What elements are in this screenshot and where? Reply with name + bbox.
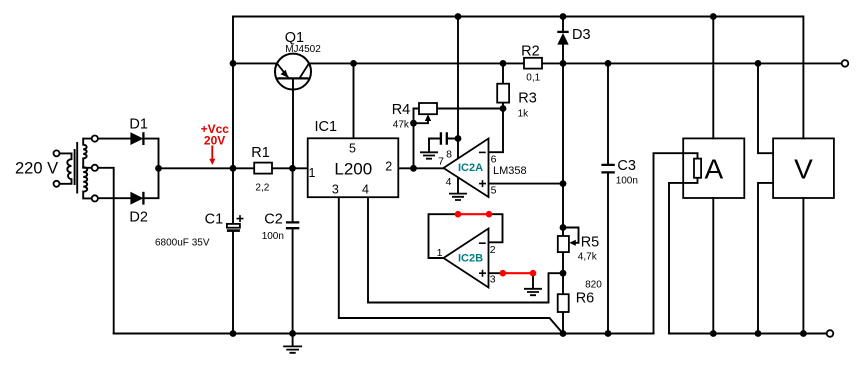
svg-text:5: 5 xyxy=(349,141,356,155)
svg-text:R3: R3 xyxy=(518,91,537,107)
svg-text:1: 1 xyxy=(437,247,443,259)
svg-text:8: 8 xyxy=(446,148,452,160)
svg-text:IC1: IC1 xyxy=(315,119,338,135)
svg-text:L200: L200 xyxy=(334,160,372,179)
svg-text:20V: 20V xyxy=(204,134,225,148)
svg-text:C3: C3 xyxy=(617,158,636,174)
svg-text:R6: R6 xyxy=(576,290,595,306)
svg-text:R1: R1 xyxy=(251,145,270,161)
svg-text:100n: 100n xyxy=(262,231,284,242)
svg-text:C2: C2 xyxy=(264,211,283,227)
svg-text:220 V: 220 V xyxy=(15,159,58,177)
svg-text:MJ4502: MJ4502 xyxy=(285,44,321,55)
svg-text:820: 820 xyxy=(585,280,602,291)
svg-text:R2: R2 xyxy=(521,44,540,60)
svg-text:5: 5 xyxy=(491,185,497,197)
svg-text:2: 2 xyxy=(490,244,496,256)
svg-text:6800uF 35V: 6800uF 35V xyxy=(155,238,210,249)
svg-text:47k: 47k xyxy=(393,120,410,131)
svg-text:2: 2 xyxy=(385,160,392,174)
svg-text:4: 4 xyxy=(446,176,452,188)
svg-text:1: 1 xyxy=(309,166,316,180)
svg-text:4: 4 xyxy=(362,182,369,196)
svg-text:C1: C1 xyxy=(205,211,224,227)
svg-text:D2: D2 xyxy=(129,210,148,226)
svg-text:1k: 1k xyxy=(518,109,530,120)
svg-text:0,1: 0,1 xyxy=(526,73,540,84)
svg-text:R4: R4 xyxy=(392,102,411,118)
svg-text:IC2B: IC2B xyxy=(458,253,483,265)
svg-text:7: 7 xyxy=(438,156,444,168)
svg-text:R5: R5 xyxy=(581,235,600,251)
svg-text:A: A xyxy=(705,154,724,185)
svg-text:V: V xyxy=(794,154,813,185)
svg-text:3: 3 xyxy=(490,274,496,286)
svg-text:D3: D3 xyxy=(572,27,591,43)
svg-text:IC2A: IC2A xyxy=(458,162,483,174)
svg-text:2,2: 2,2 xyxy=(255,183,269,194)
svg-text:4,7k: 4,7k xyxy=(578,252,598,263)
svg-text:D1: D1 xyxy=(129,117,148,133)
svg-text:100n: 100n xyxy=(616,175,638,186)
svg-text:LM358: LM358 xyxy=(493,165,527,177)
svg-text:6: 6 xyxy=(491,153,497,165)
svg-text:3: 3 xyxy=(332,182,339,196)
